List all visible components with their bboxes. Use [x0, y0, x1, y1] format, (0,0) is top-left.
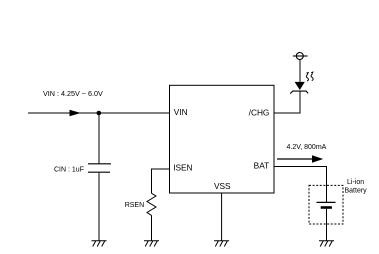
arrow BAT current direction: [277, 158, 313, 160]
ground battery: [319, 241, 334, 247]
dashed box battery outline: [309, 185, 343, 224]
ground CIN: [92, 241, 107, 247]
wire resistor to ground: [151, 215, 153, 240]
arrow input direction: [70, 110, 81, 117]
battery BT1 plates: [317, 201, 336, 203]
wire input VIN line: [28, 112, 170, 114]
svg-text:VIN : 4.25V ~ 6.0V: VIN : 4.25V ~ 6.0V: [43, 89, 103, 98]
LED cathode bar: [290, 91, 308, 94]
svg-text:4.2V, 800mA: 4.2V, 800mA: [287, 144, 327, 151]
svg-text:CIN : 1uF: CIN : 1uF: [54, 166, 84, 173]
svg-text:RSEN: RSEN: [125, 202, 144, 209]
wire LED to terminal: [299, 60, 301, 82]
terminal circle power: [296, 53, 303, 60]
svg-text:BAT: BAT: [254, 161, 270, 171]
LED light arrows: [306, 75, 308, 82]
resistor RSEN zigzag: [147, 193, 156, 215]
wire /CHG to LED: [274, 92, 300, 114]
svg-text:/CHG: /CHG: [249, 107, 270, 117]
terminal crossbar: [293, 55, 308, 57]
wire junction to capacitor CIN: [98, 113, 100, 164]
svg-text:VIN: VIN: [174, 107, 188, 117]
svg-text:VSS: VSS: [214, 181, 231, 191]
capacitor C1 CIN plates: [88, 164, 111, 172]
IC U1 box: [170, 85, 275, 193]
svg-text:Battery: Battery: [345, 188, 368, 195]
svg-text:ISEN: ISEN: [173, 163, 192, 173]
wire battery to ground: [326, 209, 328, 241]
svg-text:Li-ion: Li-ion: [347, 179, 364, 186]
ground VSS: [214, 241, 229, 247]
ground RSEN: [144, 241, 159, 247]
wire ISEN to resistor: [152, 169, 170, 193]
wire BAT to battery: [274, 167, 327, 203]
wire capacitor to ground: [98, 173, 100, 241]
LED D1 triangle: [295, 82, 305, 90]
wire VSS to ground: [221, 193, 223, 241]
node junction VIN/CIN: [97, 111, 102, 116]
